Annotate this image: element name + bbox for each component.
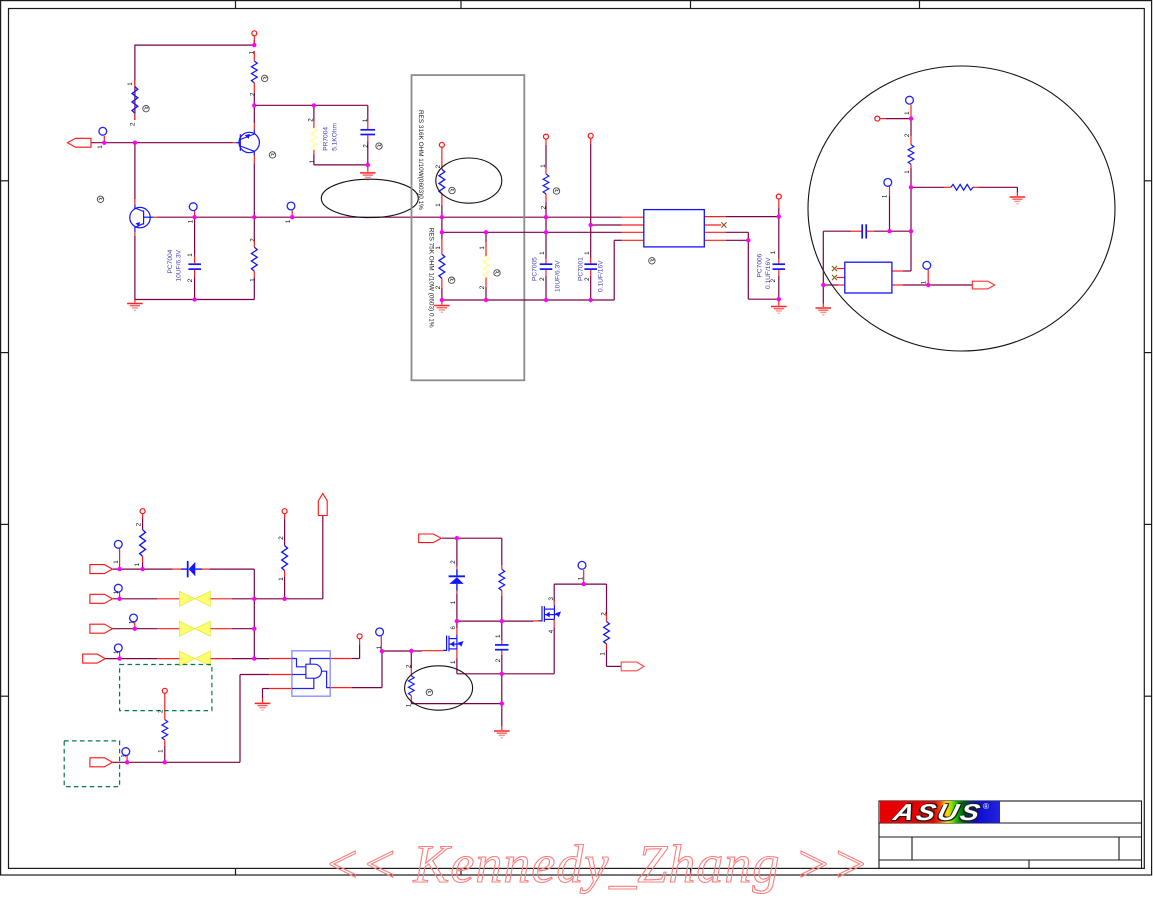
svg-text:4: 4: [548, 629, 555, 633]
svg-text:RES 75K OHM 1/10W (0603) 0.1%: RES 75K OHM 1/10W (0603) 0.1%: [428, 228, 435, 328]
svg-text:1: 1: [600, 652, 607, 656]
svg-text:1: 1: [113, 560, 120, 564]
svg-text:2: 2: [130, 122, 137, 126]
svg-text:0.1UF/16V: 0.1UF/16V: [765, 257, 772, 289]
svg-text:1: 1: [921, 280, 928, 284]
svg-text:5.1KOhm: 5.1KOhm: [332, 122, 339, 150]
svg-text:1: 1: [362, 118, 369, 122]
svg-text:2: 2: [600, 612, 607, 616]
svg-text:2: 2: [363, 144, 370, 148]
svg-text:1: 1: [113, 650, 120, 654]
svg-text:1: 1: [250, 278, 257, 282]
svg-text:1: 1: [249, 51, 256, 55]
svg-text:1: 1: [584, 251, 591, 255]
svg-text:1: 1: [904, 111, 911, 115]
svg-text:1: 1: [770, 250, 777, 254]
svg-text:1: 1: [904, 170, 911, 174]
svg-text:2: 2: [435, 285, 442, 289]
svg-text:2: 2: [450, 560, 457, 564]
svg-text:2: 2: [904, 133, 911, 137]
svg-text:2: 2: [308, 118, 315, 122]
svg-text:2: 2: [541, 205, 548, 209]
svg-text:2: 2: [187, 278, 194, 282]
svg-text:1: 1: [128, 620, 135, 624]
svg-text:RES 316K OHM 1/10W(0603)0.1%: RES 316K OHM 1/10W(0603)0.1%: [417, 110, 424, 210]
svg-text:2: 2: [539, 277, 546, 281]
svg-text:3: 3: [548, 597, 555, 601]
svg-text:1: 1: [479, 246, 486, 250]
svg-text:1: 1: [278, 577, 285, 581]
svg-text:1: 1: [97, 145, 104, 149]
svg-text:2: 2: [479, 285, 486, 289]
svg-text:1: 1: [158, 749, 165, 753]
svg-text:PR7004: PR7004: [323, 127, 330, 151]
svg-text:1: 1: [285, 219, 292, 223]
svg-text:1: 1: [450, 660, 457, 664]
svg-text:2: 2: [250, 238, 257, 242]
svg-text:PC7004: PC7004: [167, 249, 174, 273]
svg-text:1: 1: [376, 645, 383, 649]
svg-text:2: 2: [495, 658, 502, 662]
svg-text:2: 2: [435, 164, 442, 168]
svg-text:2: 2: [250, 92, 257, 96]
svg-text:1: 1: [882, 194, 889, 198]
svg-text:1: 1: [435, 203, 442, 207]
svg-text:1: 1: [405, 703, 412, 707]
svg-text:6: 6: [450, 626, 457, 630]
svg-text:1: 1: [127, 82, 134, 86]
svg-text:10UF/6.3V: 10UF/6.3V: [555, 260, 562, 292]
svg-text:1: 1: [578, 576, 585, 580]
svg-text:2: 2: [405, 664, 412, 668]
svg-text:2: 2: [584, 277, 591, 281]
svg-text:1: 1: [435, 246, 442, 250]
svg-text:1: 1: [309, 159, 316, 163]
svg-text:1: 1: [113, 590, 120, 594]
svg-text:1: 1: [539, 251, 546, 255]
svg-text:10UF/6.3V: 10UF/6.3V: [175, 249, 182, 281]
svg-text:PC7005: PC7005: [532, 257, 539, 281]
svg-text:2: 2: [770, 278, 777, 282]
svg-text:2: 2: [278, 536, 285, 540]
svg-text:1: 1: [450, 600, 457, 604]
svg-text:PC7001: PC7001: [578, 257, 585, 281]
svg-text:2: 2: [136, 522, 143, 526]
svg-text:1: 1: [495, 634, 502, 638]
svg-text:1: 1: [188, 219, 195, 223]
svg-text:1: 1: [134, 562, 141, 566]
svg-text:1: 1: [187, 253, 194, 257]
svg-text:1: 1: [540, 164, 547, 168]
svg-text:PC7006: PC7006: [757, 253, 764, 277]
svg-text:2: 2: [158, 709, 165, 713]
svg-text:0.1UF/16V: 0.1UF/16V: [598, 260, 605, 292]
svg-text:1: 1: [121, 754, 128, 758]
